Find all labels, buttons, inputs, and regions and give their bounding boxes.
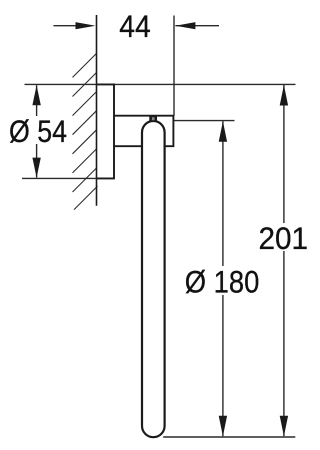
wall plate (mounting rosette, side view) <box>97 84 115 178</box>
wall line <box>96 15 98 206</box>
svg-text:Ø 180: Ø 180 <box>185 264 259 300</box>
dim 44: dimension line left tail + arrow <box>54 22 220 29</box>
svg-text:Ø 54: Ø 54 <box>9 113 67 149</box>
dim 201: vertical dimension line <box>280 85 288 436</box>
extension line top (plate top / 201 datum) <box>25 83 296 85</box>
dim O180: vertical dimension line <box>219 121 227 436</box>
extension line bottom datum <box>163 436 295 438</box>
nub connecting ring to bracket <box>149 116 157 121</box>
extension line ring top <box>174 120 235 122</box>
ring tube (side view, stadium) <box>142 121 165 437</box>
dim O54 label <box>8 116 68 144</box>
dim 201 label <box>256 223 310 251</box>
extension line plate bottom <box>22 177 114 179</box>
svg-text:44: 44 <box>119 8 151 44</box>
svg-text:201: 201 <box>259 220 309 256</box>
dim O54: vertical dimension line with outward arrows <box>32 85 40 177</box>
holder bracket <box>114 116 173 147</box>
dim O180 label <box>184 266 261 295</box>
wall hatching <box>73 53 98 209</box>
extension line 44 right <box>173 16 175 116</box>
